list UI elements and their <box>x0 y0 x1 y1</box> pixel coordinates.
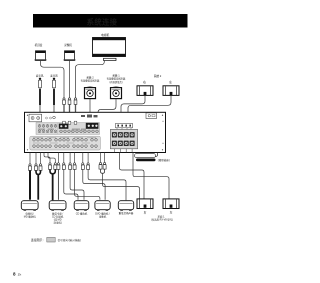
svg-text:左: 左 <box>170 211 173 215</box>
turntable device icon <box>21 201 38 211</box>
CD player device icon <box>74 201 89 211</box>
speaker terminals row2 <box>112 141 135 146</box>
receiver corner screws <box>27 115 164 151</box>
cable plug 1 to turntable <box>29 170 31 199</box>
subwoofer SW1 label <box>107 73 126 84</box>
RCA plug C into receiver top <box>74 98 77 123</box>
lower jack panel <box>30 136 101 150</box>
RCA plug 5c <box>62 163 65 170</box>
wire receiver jog to plug 4 <box>44 153 50 163</box>
RCA plug B into receiver top <box>68 98 71 123</box>
svg-text:右: 右 <box>143 80 146 84</box>
misc rear-panel marks <box>81 115 98 118</box>
lower panel label smudges <box>33 137 96 143</box>
svg-text:录像机: 录像机 <box>99 215 107 219</box>
svg-text:左: 左 <box>169 80 172 84</box>
svg-text:录像机: 录像机 <box>64 43 72 47</box>
upper jack panel <box>36 123 100 135</box>
page number <box>13 272 22 277</box>
RCA plug 11 <box>103 162 106 169</box>
svg-text:麦克风,: 麦克风, <box>36 73 45 77</box>
RCA plug A into receiver top <box>63 98 66 123</box>
wire receiver to plug 7 <box>74 153 76 163</box>
wire receiver to plug 10 <box>100 153 102 163</box>
svg-text:系统连接: 系统连接 <box>87 17 118 26</box>
set-top box STB <box>35 51 47 61</box>
wires label box to terminal block <box>117 128 131 130</box>
cable merged to turntable <box>37 174 39 200</box>
wire speaker R to receiver <box>121 95 145 123</box>
power cord <box>135 153 158 162</box>
receiver rear panel <box>25 112 166 152</box>
subwoofer SW1 <box>111 87 122 99</box>
tape deck label <box>52 212 64 225</box>
VCR box <box>64 51 76 61</box>
speaker wire to bottom speaker L <box>133 153 169 199</box>
wire plug 8 to DVD player <box>83 169 105 199</box>
legend caption <box>31 237 81 242</box>
RCA plug 1 <box>29 164 32 171</box>
upper RCA jacks row2 <box>38 130 98 133</box>
wire plug 7 to DVD player <box>75 169 100 199</box>
antenna terminal box <box>29 114 42 122</box>
subwoofer SW2 label <box>81 75 100 82</box>
svg-text:MD 播放机: MD 播放机 <box>24 215 36 219</box>
speaker wire to bottom speaker R <box>120 153 145 199</box>
wire from set-top box <box>41 61 65 98</box>
svg-text:CD 播放机: CD 播放机 <box>76 212 88 216</box>
wire receiver to plug 9 <box>87 153 89 163</box>
AM jack socket <box>53 116 56 119</box>
AC outlet on panel <box>146 113 157 119</box>
svg-text:8: 8 <box>13 272 16 277</box>
svg-text:系统 1: 系统 1 <box>112 73 120 77</box>
svg-text:机顶盒: 机顶盒 <box>35 43 43 47</box>
wire plug 5c to CD player <box>64 169 78 199</box>
speaker R (top) <box>137 86 153 96</box>
DVD player device icon <box>95 201 110 211</box>
speaker terminals row1 <box>112 132 135 137</box>
speaker R (bottom) <box>137 199 153 209</box>
wire receiver to plug 5b <box>57 153 59 163</box>
RCA plug 3 <box>39 164 42 171</box>
AM antenna cable plug <box>53 78 56 115</box>
wire receiver to plug 2 <box>35 153 37 164</box>
wire receiver to plug 11 <box>104 153 106 163</box>
wire from VCR <box>69 61 71 98</box>
cable merge plugs 2+3 <box>36 170 38 174</box>
lower RCA jack center pins <box>34 139 97 146</box>
cable merge plugs 10+11 <box>101 169 103 173</box>
wire merged pair to speaker R (bottom) <box>103 173 140 199</box>
svg-text:(仅适用 RX-V8 型号): (仅适用 RX-V8 型号) <box>151 217 173 221</box>
RCA plug 9 <box>87 163 90 170</box>
svg-text:(墙壁插座): (墙壁插座) <box>158 158 170 162</box>
svg-text:电视机: 电视机 <box>101 33 109 37</box>
svg-text:右: 右 <box>144 211 147 215</box>
svg-text:麦克风: 麦克风 <box>50 73 58 77</box>
RCA plug 10 <box>99 162 102 169</box>
wire plug 9 to subwoofer (bottom) <box>88 169 126 200</box>
wire receiver to plug 5c <box>63 153 65 163</box>
speaker terminal block <box>110 129 137 148</box>
digital jack block <box>59 124 69 129</box>
upper RCA jacks row1 <box>38 125 57 128</box>
wire receiver jog to plug 5 <box>48 153 55 163</box>
RCA plug 5 <box>54 163 57 170</box>
RCA plug 7 <box>73 163 76 170</box>
svg-text:连接图示 :: 连接图示 : <box>31 237 44 242</box>
svg-text:系统 2: 系统 2 <box>86 75 94 79</box>
upper panel label smudges <box>38 128 86 131</box>
lower RCA jacks row1 <box>33 139 98 142</box>
RCA plug 4 <box>49 163 52 170</box>
wire receiver to plug 6 <box>69 153 71 163</box>
speaker impedance label box <box>116 123 133 127</box>
RCA plug 5b <box>57 163 60 170</box>
svg-text:刻录机): 刻录机) <box>54 220 62 224</box>
RCA plug 6 <box>69 163 72 170</box>
svg-text:系统 2: 系统 2 <box>154 74 162 78</box>
wire receiver to plug 8 <box>82 153 84 163</box>
turntable label <box>24 212 36 219</box>
lower RCA jacks row2 <box>33 145 98 148</box>
wire receiver to plug 1 <box>29 153 31 164</box>
DVD player label <box>95 212 110 219</box>
wire speaker L to receiver <box>128 95 171 123</box>
FM antenna cable plug <box>39 78 42 115</box>
RCA plug 8 <box>81 163 84 170</box>
svg-text:信号流向 (输入/输出): 信号流向 (输入/输出) <box>58 238 82 242</box>
speaker L (bottom) <box>163 199 179 209</box>
cable merge plugs 4+5 <box>50 169 53 173</box>
RCA plug 2 <box>35 164 38 171</box>
svg-text:重低音扬声器: 重低音扬声器 <box>119 211 134 215</box>
header title bar <box>33 14 188 28</box>
subwoofer out jack block <box>86 123 99 129</box>
wire from TV <box>76 61 105 98</box>
subwoofer SW2 <box>85 87 96 99</box>
jack sockets for input plugs <box>63 121 77 124</box>
speaker L (top) <box>163 86 179 96</box>
svg-text:Zh: Zh <box>18 273 22 277</box>
upper RCA jack center pins row2 <box>39 130 97 133</box>
speakers system1 label <box>151 214 173 221</box>
wire subwoofer SW1 to receiver <box>98 99 116 123</box>
TV monitor <box>93 38 126 61</box>
cable merged to tape deck <box>52 174 54 201</box>
terminal block output stubs <box>114 149 132 153</box>
wire plug 5b to tape deck <box>57 169 59 199</box>
tape deck device icon <box>49 201 66 211</box>
wire subwoofer SW2 to receiver <box>89 99 91 113</box>
subwoofer (bottom) device icon <box>118 201 133 211</box>
wire receiver to plug 3 <box>40 153 42 164</box>
wire plug 6 to CD player <box>70 169 84 199</box>
